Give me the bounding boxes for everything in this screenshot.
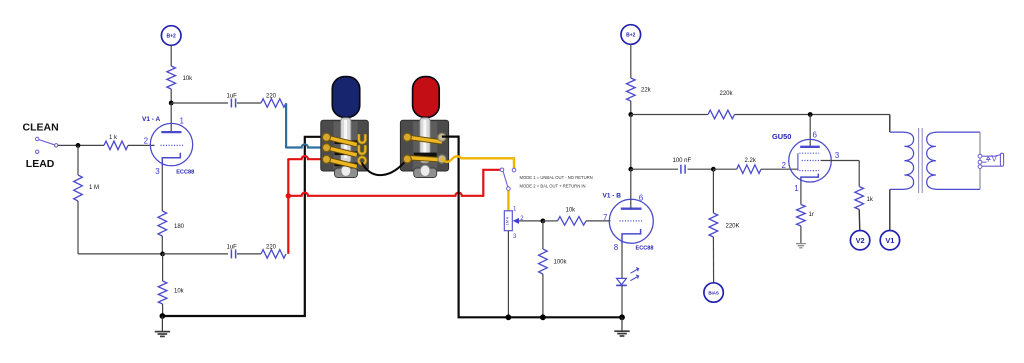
- power V1 tap: [880, 231, 899, 250]
- switch SW-IN lead contact: [36, 150, 39, 153]
- node wiper junction: [541, 219, 546, 224]
- svg-text:10k: 10k: [174, 289, 185, 295]
- switch S1 lever 2: [327, 148, 357, 155]
- label 22k value: [641, 88, 652, 94]
- label V1-A ECC88: [176, 170, 194, 176]
- wire cathode node to 10k: [162, 254, 164, 281]
- svg-text:GU50: GU50: [772, 132, 791, 141]
- svg-text:10k: 10k: [566, 208, 577, 214]
- svg-text:BIAS: BIAS: [708, 290, 719, 295]
- wire plate node to V1-A pin1: [170, 103, 172, 132]
- svg-text:1k: 1k: [867, 197, 874, 203]
- wire secondary loop: [979, 132, 981, 189]
- text CLEAN label: [23, 122, 59, 134]
- label V1-A pin 3: [155, 167, 160, 176]
- tube GU50 plate: [800, 146, 820, 148]
- wire B+2 to 22k: [630, 44, 632, 78]
- node 100k ground junction: [540, 314, 546, 320]
- power BIAS supply: [704, 283, 723, 302]
- switch SW-IN common contact: [55, 144, 58, 147]
- LED D1 arrows: [631, 268, 639, 281]
- tube GU50 grid1: [802, 160, 821, 162]
- resistor 2.2k grid stopper: [737, 165, 761, 174]
- LED D1 triangle: [617, 278, 627, 284]
- label V1-B designator: [603, 193, 622, 200]
- switch S1 body: [321, 120, 369, 171]
- resistor 180 cathode V1-A: [158, 211, 167, 236]
- node V1-A plate junction: [169, 101, 174, 106]
- switch SW-IN lever: [39, 140, 55, 145]
- tube V1-A cathode: [162, 153, 180, 167]
- text LEAD label: [26, 158, 55, 170]
- label 220k value: [720, 91, 734, 97]
- wire grid node to 220K: [712, 169, 714, 213]
- label 1uF lower value: [227, 244, 238, 250]
- node coupling junction: [628, 167, 633, 172]
- wire black jumper S1 to S2: [362, 160, 406, 175]
- svg-text:100 nF: 100 nF: [673, 158, 692, 164]
- switch S2 red cap: [413, 77, 440, 118]
- svg-text:220: 220: [266, 244, 277, 250]
- svg-text:V1 - B: V1 - B: [603, 193, 622, 200]
- wire plate junction to GU50 pin6: [809, 115, 811, 147]
- label 220 lower value: [266, 244, 277, 250]
- svg-text:7: 7: [603, 213, 608, 222]
- wire black hookup blue-switch to ground rail: [162, 137, 327, 316]
- svg-text:180: 180: [174, 224, 185, 230]
- label 10k grid value: [566, 208, 577, 214]
- svg-text:220k: 220k: [720, 91, 734, 97]
- wire 220k to transformer corner: [735, 114, 890, 116]
- wire black hookup S2 to ground rail: [442, 137, 622, 318]
- svg-text:ECC88: ECC88: [176, 170, 194, 176]
- transformer T1 primary: [890, 132, 914, 189]
- label V1-A pin 1: [180, 117, 185, 126]
- wire 180 to cathode node: [161, 236, 163, 254]
- wire red hookup to switch: [288, 156, 327, 159]
- svg-text:2: 2: [144, 137, 149, 146]
- wire pot wiper: [518, 220, 543, 222]
- wire 220K to BIAS: [712, 237, 714, 283]
- wire 1uF lower to 220 lower: [237, 253, 261, 255]
- label 2.2k value: [745, 158, 757, 164]
- tube GU50 grid3: [799, 170, 819, 172]
- resistor 1r cathode: [797, 205, 806, 227]
- power V2 tap: [850, 231, 869, 250]
- svg-text:ECC88: ECC88: [636, 245, 654, 251]
- svg-text:8: 8: [614, 243, 619, 252]
- node input junction: [76, 143, 81, 148]
- svg-text:6: 6: [813, 131, 818, 140]
- svg-text:V1 - A: V1 - A: [142, 116, 160, 123]
- tube GU50 envelope: [789, 139, 832, 182]
- capacitor 1uF upper coupling: [231, 99, 235, 108]
- switch MODE throw 2: [512, 168, 516, 172]
- wire yellow hookup S2 to mode switch: [442, 156, 514, 168]
- label V1-B pin 6: [639, 193, 644, 202]
- label V1-B ECC88: [636, 245, 654, 251]
- tube V1-B cathode: [622, 229, 641, 244]
- wire 1k to V1-A pin2: [128, 144, 155, 146]
- potentiometer wiper arrow: [513, 218, 519, 224]
- switch S1 terminal 2: [323, 144, 331, 152]
- node GU50 grid junction: [711, 167, 716, 172]
- resistor 22k dropper: [627, 78, 636, 101]
- switch S2 slot bar: [414, 153, 437, 157]
- svg-text:1r: 1r: [809, 212, 814, 218]
- label 220K value: [726, 224, 740, 230]
- resistor 220 lower: [261, 250, 286, 259]
- jack J1 sleeve line: [982, 165, 1002, 167]
- wire red hookup vertical: [287, 159, 289, 254]
- wire junction to 100k: [542, 221, 544, 249]
- resistor 1M: [74, 175, 83, 201]
- resistor 100k grid leak: [539, 249, 548, 274]
- wire coupling node to V1-B pin6: [630, 169, 632, 209]
- switch S1 right lug 3: [359, 157, 366, 164]
- jack J1 tip switch: [987, 157, 990, 162]
- svg-text:1M A: 1M A: [506, 216, 510, 225]
- wire GU50 pin3 to corner: [821, 160, 860, 162]
- svg-text:V: V: [991, 153, 997, 163]
- label 220 upper value: [266, 94, 277, 100]
- label 1k screen value: [867, 197, 874, 203]
- label V1-A designator: [142, 116, 160, 123]
- text MODE 2 note: [520, 183, 586, 188]
- tube V1-A grid: [161, 144, 184, 146]
- node B+ junction: [628, 112, 633, 117]
- switch S1 terminal 1: [323, 133, 331, 141]
- wire B+ node to coupling node: [630, 115, 632, 170]
- node ground-1 junction: [160, 313, 166, 319]
- resistor 220 upper: [261, 99, 286, 108]
- switch S2 shaft: [420, 118, 430, 163]
- switch S1 blue cap: [332, 77, 359, 118]
- label GU50 designator: [772, 132, 791, 141]
- wire 1uF to 220: [237, 102, 261, 104]
- transformer T1 secondary: [927, 132, 980, 189]
- switch S2 lever top: [407, 137, 442, 142]
- tube V1-A plate: [161, 131, 181, 133]
- power B+2 right supply: [621, 25, 641, 45]
- switch MODE lever: [503, 171, 508, 187]
- jack J1 sleeve contact: [978, 165, 982, 169]
- svg-text:1uF: 1uF: [227, 94, 238, 100]
- resistor 1k screen: [855, 187, 864, 210]
- potentiometer 1M A label: [506, 216, 510, 225]
- switch S1 lever 3: [327, 159, 357, 166]
- switch S2 body: [400, 120, 448, 171]
- wire corner to primary: [889, 115, 891, 133]
- node cathode junction: [160, 252, 165, 257]
- wire plate node to 1uF: [171, 102, 228, 104]
- jack J1 ring stub: [982, 161, 987, 163]
- wire 1M bottom lead: [77, 201, 79, 254]
- svg-text:V2: V2: [856, 236, 865, 245]
- wire 10k to V1-B pin7: [586, 220, 611, 222]
- label GU50 pin 2: [782, 161, 787, 170]
- jack J1 ring contact: [978, 160, 982, 164]
- svg-text:1: 1: [180, 117, 185, 126]
- wire node to 220k: [631, 114, 708, 116]
- text MODE 1 note: [520, 175, 593, 180]
- jack J1 V label: [991, 153, 997, 163]
- node GU50 plate junction: [808, 112, 813, 117]
- wire yellow mode common to pot: [507, 191, 509, 211]
- switch S2 terminal bottom-right: [438, 155, 446, 163]
- resistor 220k: [708, 110, 735, 119]
- potentiometer 1M A body: [504, 211, 512, 231]
- label 1uF upper value: [227, 94, 238, 100]
- wire 1M top lead: [77, 145, 79, 175]
- capacitor 100nF coupling: [681, 165, 685, 174]
- svg-text:3: 3: [155, 167, 160, 176]
- node red junction: [286, 193, 291, 198]
- svg-text:MODE 2 = BAL OUT + RETURN IN: MODE 2 = BAL OUT + RETURN IN: [520, 183, 586, 188]
- wire 100nF to grid node: [688, 168, 714, 170]
- wire primary to V1: [889, 189, 891, 230]
- ground GU50 cathode: [796, 243, 806, 248]
- label 10k lower value: [174, 289, 185, 295]
- label 100k value: [554, 260, 568, 266]
- wire cathode node to 1uF lower: [163, 253, 228, 255]
- jack J1 tip line: [982, 155, 1000, 157]
- label 100nF value: [673, 158, 692, 164]
- wire pot pin3 to ground rail: [507, 231, 509, 318]
- svg-text:220: 220: [266, 94, 277, 100]
- switch S1 right lug 1: [359, 134, 365, 143]
- switch S2 terminal top-right: [438, 133, 446, 141]
- tube V1-B grid: [620, 220, 644, 222]
- resistor 220K bias feed: [709, 213, 718, 237]
- LED D1 bar: [616, 284, 627, 286]
- tube V1-A envelope: [150, 123, 192, 165]
- power B+2 left supply: [161, 26, 181, 46]
- svg-text:1uF: 1uF: [227, 244, 238, 250]
- resistor 10k plate load V1-A: [167, 66, 176, 89]
- resistor 10k grid stopper V1-B: [558, 217, 587, 226]
- tube GU50 cathode: [801, 174, 818, 182]
- svg-text:22k: 22k: [641, 88, 652, 94]
- switch MODE common: [507, 187, 511, 191]
- switch S1 lever 1: [327, 137, 357, 144]
- svg-text:220K: 220K: [726, 224, 740, 230]
- wire 10k to ground rail: [162, 304, 164, 316]
- wire coupling node to 100nF: [631, 168, 678, 170]
- switch S1 shaft: [341, 118, 351, 163]
- capacitor 1uF lower coupling: [231, 249, 235, 258]
- label pot pin 3: [513, 234, 517, 240]
- node pot ground junction: [506, 314, 512, 320]
- wire B+2 to 10k: [170, 45, 172, 66]
- tube GU50 grid bracket: [797, 153, 799, 170]
- svg-text:100k: 100k: [554, 260, 568, 266]
- svg-text:CLEAN: CLEAN: [23, 122, 59, 134]
- svg-text:LEAD: LEAD: [26, 158, 55, 170]
- wire 100k to ground rail: [542, 274, 544, 317]
- wire V1-A pin3 to 180: [161, 166, 163, 211]
- tube V1-B envelope: [609, 199, 653, 243]
- node ground-2 junction: [619, 314, 625, 320]
- svg-text:1 k: 1 k: [109, 135, 118, 141]
- tube V1-B plate: [621, 208, 642, 210]
- jack J1 tip contact: [978, 154, 982, 158]
- wire red hookup to mode switch: [288, 170, 500, 196]
- wire 22k to node: [630, 101, 632, 115]
- wire 1r to ground: [800, 226, 802, 243]
- tube GU50 grid2: [799, 152, 819, 154]
- switch S1 terminal 3: [323, 155, 331, 163]
- svg-text:6: 6: [639, 193, 644, 202]
- label pot pin 2: [520, 216, 524, 222]
- switch S1 right lug 2: [359, 145, 365, 154]
- switch S2 bottom tab: [414, 165, 437, 177]
- label GU50 pin 1: [794, 184, 799, 193]
- label V1-B pin 8: [614, 243, 619, 252]
- wire junction to 10k grid: [543, 220, 558, 222]
- wire GU50 pin1 to 1r: [800, 182, 802, 205]
- wire input common to node: [58, 144, 104, 146]
- svg-text:1: 1: [794, 184, 799, 193]
- switch S2 terminal bottom-left: [403, 155, 411, 163]
- switch S1 bottom tab: [335, 165, 358, 177]
- wire pin3 corner down: [858, 161, 860, 187]
- wire 1M to cathode node: [78, 253, 163, 255]
- transformer T1 core: [919, 128, 923, 193]
- svg-text:3: 3: [835, 151, 840, 160]
- label 180 value: [174, 224, 185, 230]
- switch MODE throw 1: [500, 168, 504, 172]
- label V1-B pin 7: [603, 213, 608, 222]
- wire blue hookup horizontal: [286, 144, 327, 147]
- svg-text:MODE 1 = UNBAL OUT - NO RETURN: MODE 1 = UNBAL OUT - NO RETURN: [520, 175, 593, 180]
- svg-text:2: 2: [782, 161, 787, 170]
- svg-text:2.2k: 2.2k: [745, 158, 757, 164]
- svg-text:V1: V1: [885, 236, 894, 245]
- wire 2.2k to GU50 pin2: [761, 168, 798, 170]
- ground right: [614, 317, 629, 336]
- label 1k value: [109, 135, 118, 141]
- label 1M value: [89, 185, 99, 191]
- wire LED to ground rail: [621, 285, 623, 317]
- jack J1 body bar: [1000, 153, 1003, 166]
- resistor 1k input grid stopper: [104, 141, 128, 150]
- switch SW-IN clean contact: [36, 137, 39, 140]
- svg-text:B+2: B+2: [626, 32, 636, 38]
- wire grid node to 2.2k: [713, 168, 736, 170]
- resistor 10k cathode bypass leg: [158, 281, 167, 304]
- label V1-A pin 2: [144, 137, 149, 146]
- svg-text:B+2: B+2: [167, 33, 177, 39]
- switch S2 terminal top-left: [403, 133, 411, 141]
- wire V1-B pin8 to LED: [621, 244, 623, 278]
- switch S1 slot bars: [335, 140, 358, 166]
- label 10k value: [183, 76, 194, 82]
- svg-text:1 M: 1 M: [89, 185, 99, 191]
- label pot pin 1: [513, 207, 517, 213]
- svg-text:10k: 10k: [183, 76, 194, 82]
- label GU50 pin 6: [813, 131, 818, 140]
- switch S2 lever bottom: [406, 158, 442, 160]
- label 1r value: [809, 212, 814, 218]
- wire 1k to V2: [858, 210, 861, 231]
- label GU50 pin 3: [835, 151, 840, 160]
- ground left: [155, 316, 170, 336]
- wire blue hookup vertical: [285, 103, 287, 147]
- wire 10k to plate node: [170, 89, 172, 103]
